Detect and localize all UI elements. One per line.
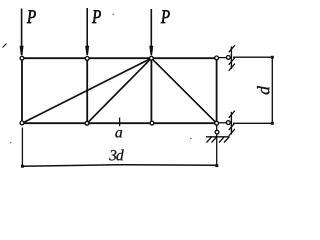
- label P2: [92, 10, 101, 23]
- dimension d top dot: [271, 56, 274, 59]
- ground hatch 4: [224, 137, 230, 143]
- node T4: [215, 56, 219, 60]
- bottom roller circle under B4: [215, 130, 219, 134]
- label d of 3d: [116, 149, 123, 160]
- dimension d top line: [233, 56, 272, 58]
- node B2: [85, 121, 89, 125]
- label P1: [27, 10, 36, 23]
- dimension 3d extension line: [21, 128, 23, 168]
- node T1: [20, 56, 24, 60]
- label d (rotated): [257, 86, 269, 94]
- dimension d bottom dot: [271, 122, 274, 125]
- ground hatch 3: [219, 137, 225, 143]
- top-right wall hatch 2: [229, 58, 235, 65]
- ground hatch 1: [207, 137, 213, 143]
- top-right support wall: [230, 47, 232, 70]
- top-right roller support link: [218, 57, 226, 59]
- bottom support ground line: [206, 136, 230, 138]
- dimension 3d right dot: [215, 164, 218, 167]
- node T3: [150, 56, 154, 60]
- node B3: [150, 121, 154, 125]
- top-right wall hatch 3: [229, 64, 235, 71]
- node B4: [215, 121, 219, 125]
- vertical member at third panel: [150, 58, 152, 123]
- dimension d vertical line: [271, 56, 273, 125]
- dimension 3d left dot: [21, 165, 24, 168]
- bottom chord member: [22, 122, 217, 124]
- support link line below B4: [216, 123, 218, 165]
- bottom-right roller support link: [218, 122, 226, 124]
- top-right wall hatch 1: [229, 45, 235, 52]
- ground hatch 2: [212, 137, 218, 143]
- point a tick: [119, 118, 121, 127]
- bottom-right roller circle: [226, 121, 230, 125]
- bottom-right wall hatch 3: [229, 129, 235, 136]
- label 3 of 3d: [109, 150, 116, 160]
- long diagonal member B1-T3: [22, 58, 151, 123]
- diagonal member T3-B4: [151, 58, 216, 123]
- label a: [115, 130, 122, 137]
- dimension 3d line: [22, 165, 216, 167]
- bottom-right wall hatch 2: [229, 123, 235, 130]
- top chord member: [22, 57, 217, 59]
- bottom-right support wall: [230, 112, 232, 135]
- stray scan mark top-left: [3, 44, 7, 48]
- right end post member: [216, 58, 218, 123]
- left end post member: [21, 58, 23, 123]
- stray scan dot top-middle: [113, 14, 115, 16]
- node T2: [85, 57, 89, 61]
- diagonal member B2-T3: [87, 58, 151, 123]
- vertical member at second panel: [86, 58, 88, 123]
- bottom-right wall hatch 1: [229, 111, 235, 118]
- top-right roller circle: [226, 56, 230, 60]
- node B1: [20, 121, 24, 125]
- load arrow P2: [85, 8, 89, 55]
- load arrow P1: [20, 9, 24, 56]
- load arrow P3: [149, 9, 153, 55]
- stray scan dot left: [10, 142, 11, 143]
- stray scan dot right: [190, 138, 192, 139]
- label P3: [161, 10, 170, 23]
- dimension d bottom line: [233, 122, 272, 124]
